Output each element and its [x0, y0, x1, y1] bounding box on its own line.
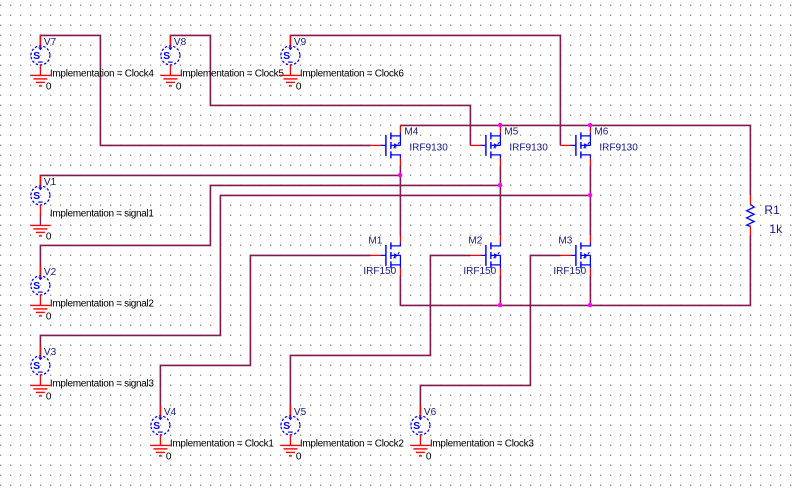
svg-text:V8: V8 — [174, 37, 187, 48]
svg-text:Implementation = signal1: Implementation = signal1 — [50, 208, 154, 219]
svg-text:IRF9130: IRF9130 — [509, 142, 548, 153]
svg-text:IRF9130: IRF9130 — [409, 142, 448, 153]
svg-text:M1: M1 — [368, 235, 382, 246]
wire top rail to R1 top — [400, 125, 750, 195]
svg-text:V4: V4 — [164, 407, 177, 418]
wire M3 source to bottom rail — [589, 275, 591, 305]
ground (below V1) — [30, 205, 50, 236]
wire V2 to node B — [40, 185, 500, 276]
NMOS transistor M1 (IRF150) — [370, 235, 400, 275]
svg-text:Implementation = Clock1: Implementation = Clock1 — [170, 438, 274, 449]
svg-text:0: 0 — [296, 451, 302, 462]
voltage source V8 — [161, 35, 180, 65]
svg-text:Implementation = Clock2: Implementation = Clock2 — [300, 438, 404, 449]
voltage source V2 — [31, 265, 50, 295]
svg-text:S: S — [163, 50, 170, 62]
svg-text:0: 0 — [46, 391, 52, 402]
wire node B vertical (M5 drain to M2 drain) — [499, 165, 501, 235]
junction M5 source / top rail — [498, 123, 502, 127]
svg-text:V7: V7 — [44, 37, 57, 48]
svg-text:IRF150: IRF150 — [553, 266, 586, 277]
ground (below V8) — [160, 65, 180, 86]
svg-text:S: S — [153, 420, 160, 432]
wire node C vertical (M6 drain to M3 drain) — [589, 165, 591, 235]
NMOS transistor M3 (IRF150) — [560, 235, 590, 275]
svg-text:S: S — [283, 420, 290, 432]
svg-text:R1: R1 — [764, 203, 780, 217]
svg-text:M3: M3 — [558, 235, 572, 246]
svg-text:S: S — [33, 50, 40, 62]
svg-text:V3: V3 — [44, 347, 57, 358]
ground (below V7) — [30, 65, 50, 86]
junction node C (V3 / M6 / M3) — [588, 193, 592, 197]
wire M2 source to bottom rail — [499, 275, 501, 305]
svg-text:0: 0 — [46, 311, 52, 322]
voltage source V6 — [411, 405, 430, 435]
svg-text:Implementation = Clock4: Implementation = Clock4 — [50, 68, 154, 79]
voltage source V1 — [31, 175, 50, 205]
svg-text:M5: M5 — [504, 126, 518, 137]
svg-text:0: 0 — [176, 81, 182, 92]
svg-text:M4: M4 — [404, 126, 418, 137]
wire V1 bottom pin to ground — [39, 215, 41, 225]
wire V3 to node C — [40, 195, 590, 356]
svg-text:S: S — [413, 420, 420, 432]
PMOS transistor M4 (IRF9130) — [370, 125, 400, 165]
svg-text:S: S — [283, 50, 290, 62]
PMOS transistor M6 (IRF9130) — [560, 125, 590, 165]
svg-text:IRF150: IRF150 — [363, 266, 396, 277]
wire V8 to M5 gate — [170, 35, 470, 145]
junction M6 source / top rail — [588, 123, 592, 127]
ground (below V9) — [280, 65, 300, 86]
svg-text:S: S — [33, 280, 40, 292]
resistor R1 — [747, 195, 755, 235]
svg-text:1k: 1k — [769, 222, 783, 236]
wire V6 to M3 gate — [420, 255, 560, 416]
ground (below V5) — [280, 435, 300, 456]
wire node A vertical (M4 drain to M1 drain) — [399, 165, 401, 235]
junction node B (V2 / M5 / M2) — [498, 183, 502, 187]
junction M3 source / bottom rail — [588, 303, 592, 307]
voltage source V9 — [281, 35, 300, 65]
svg-text:V1: V1 — [44, 177, 57, 188]
svg-text:Implementation = signal3: Implementation = signal3 — [50, 378, 154, 389]
svg-text:IRF9130: IRF9130 — [599, 142, 638, 153]
svg-text:0: 0 — [296, 81, 302, 92]
wire V1 to node A — [40, 175, 400, 186]
NMOS transistor M2 (IRF150) — [470, 235, 500, 275]
voltage source V7 — [31, 35, 50, 65]
svg-text:V6: V6 — [424, 407, 437, 418]
wire V7 to M4 gate — [40, 35, 370, 145]
svg-text:Implementation = Clock5: Implementation = Clock5 — [180, 68, 284, 79]
ground (below V3) — [30, 375, 50, 396]
svg-text:Implementation = signal2: Implementation = signal2 — [50, 298, 154, 309]
junction M2 source / bottom rail — [498, 303, 502, 307]
svg-text:0: 0 — [46, 81, 52, 92]
svg-text:V5: V5 — [294, 407, 307, 418]
svg-text:S: S — [33, 360, 40, 372]
voltage source V4 — [151, 405, 170, 435]
junction node A (V1 / M4 / M1) — [398, 173, 402, 177]
ground (below V6) — [410, 435, 430, 456]
svg-text:IRF150: IRF150 — [463, 266, 496, 277]
svg-text:Implementation = Clock3: Implementation = Clock3 — [430, 438, 534, 449]
svg-text:V9: V9 — [294, 37, 307, 48]
voltage source V3 — [31, 345, 50, 375]
svg-text:Implementation = Clock6: Implementation = Clock6 — [300, 68, 404, 79]
wire M1 source to bottom rail to R1 bottom — [400, 235, 750, 305]
svg-text:V2: V2 — [44, 267, 57, 278]
svg-text:0: 0 — [46, 231, 52, 242]
svg-text:0: 0 — [166, 451, 172, 462]
svg-text:M2: M2 — [468, 235, 482, 246]
wire V5 to M2 gate — [290, 255, 470, 416]
svg-text:0: 0 — [426, 451, 432, 462]
ground (below V4) — [150, 435, 170, 456]
svg-text:M6: M6 — [594, 126, 608, 137]
svg-text:S: S — [33, 190, 40, 202]
wire V9 to M6 gate — [290, 35, 560, 145]
PMOS transistor M5 (IRF9130) — [470, 125, 500, 165]
ground (below V2) — [30, 295, 50, 316]
voltage source V5 — [281, 405, 300, 435]
wire V4 to M1 gate — [160, 255, 370, 416]
